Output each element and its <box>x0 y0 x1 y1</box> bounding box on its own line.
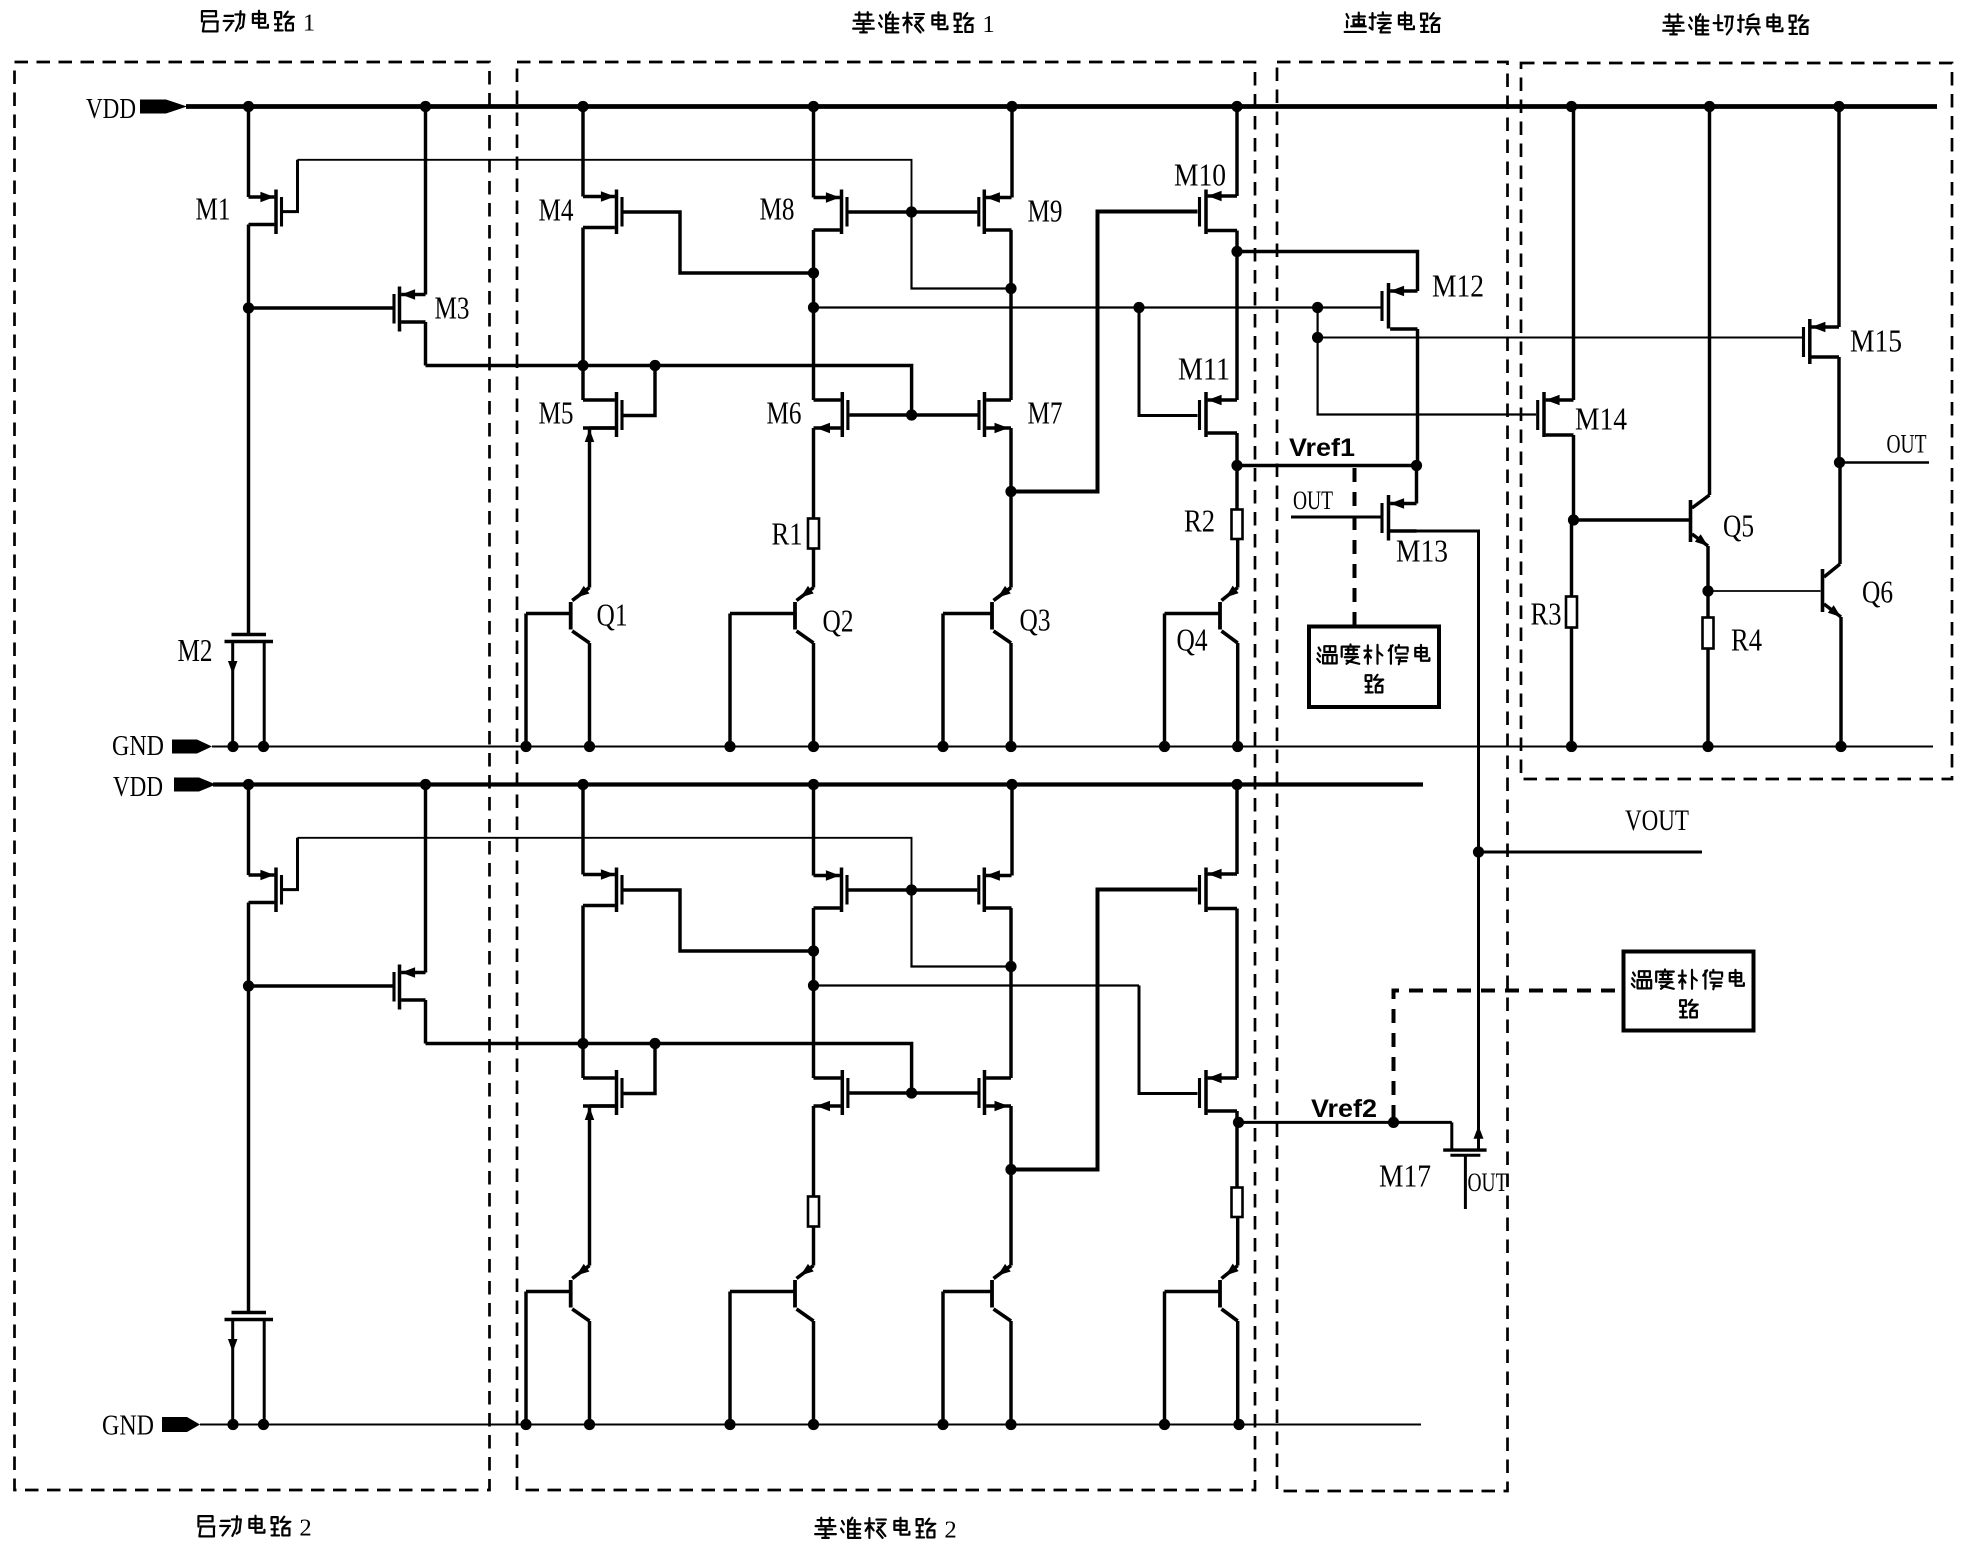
resistor R1' <box>808 1197 819 1227</box>
wire: VDD to M14 drain <box>1572 107 1575 401</box>
box: temperature compensation circuit 2 (wendu buchang dianlu) <box>1624 952 1754 1031</box>
node: M14 source / R3 / Q5 base junction <box>1568 514 1579 525</box>
label VOUT <box>1625 804 1689 837</box>
ground rail GND (bottom) <box>200 1424 1421 1426</box>
svg-text:1: 1 <box>982 11 994 38</box>
label M9 <box>1028 193 1063 229</box>
wire: R2 to Q4 emitter <box>1236 539 1239 588</box>
wire: M8 source down through M4-gate and M12-gate taps to M6 drain <box>812 908 815 1078</box>
title: jizhun he dianlu 2 (reference core circuit 2) <box>815 1516 957 1543</box>
transistor M10' (PMOS) <box>1200 868 1238 913</box>
label M4 <box>539 192 574 228</box>
dashed box: startup circuit 1/2 (qidong dianlu) <box>15 62 490 1490</box>
wire: VDD to M8 drain <box>812 107 815 198</box>
dashed box: reference core circuit 1/2 (jizhun he dianlu) <box>517 62 1255 1490</box>
transistor Q5 (NPN, switching circuit) <box>1691 107 1710 592</box>
svg-text:Q5: Q5 <box>1723 508 1754 544</box>
transistor M11' (PMOS cascode) <box>1200 1070 1238 1115</box>
wire: M5 source down to Q1 emitter <box>588 1106 591 1266</box>
label M11 <box>1178 351 1230 387</box>
node: M12 gate line tap <box>808 980 819 991</box>
transistor M8 (core PMOS) <box>814 190 848 235</box>
wire: thin gate line from M1 gate to M8/M9 gate column <box>298 160 912 212</box>
node: M5 gate junction on bias line <box>649 1038 660 1049</box>
node: M1 source / M3 gate junction <box>243 980 254 991</box>
title: jizhun he dianlu 1 (reference core circuit 1) <box>853 11 995 38</box>
resistor R3 <box>1566 597 1577 628</box>
svg-text:OUT: OUT <box>1468 1168 1508 1197</box>
wire: M13 gate line (OUT control) <box>1291 516 1381 519</box>
wire: long M12-gate line from M8 source column <box>814 306 1382 308</box>
wire: VDD to M8 drain <box>812 785 815 876</box>
wire: gate net drop to M9 source column <box>912 890 1012 967</box>
transistor M2' (startup 2) <box>225 1313 274 1425</box>
ground flag GND (upper) <box>112 730 212 762</box>
box: temperature compensation circuit 1 (wendu buchang dianlu) <box>1309 627 1439 708</box>
transistor Q4' (PNP) <box>1165 1264 1239 1425</box>
transistor M15 (PMOS, switching circuit) <box>1804 319 1840 364</box>
label M17 <box>1379 1158 1431 1194</box>
wire: M12 source down to Vref1 node <box>1416 329 1419 466</box>
wire: M8 source down through M4-gate and M12-gate taps to M6 drain <box>812 230 815 400</box>
svg-text:Vref1: Vref1 <box>1289 434 1355 462</box>
wire: M15 source down to OUT node <box>1837 357 1840 463</box>
transistor M9' (core 2 PMOS) <box>979 785 1012 913</box>
wire: M6 source to R1 <box>812 1106 815 1197</box>
svg-text:M4: M4 <box>539 192 574 228</box>
title: jizhun qiehuan dianlu (reference switching circuit) <box>1663 14 1808 34</box>
wire: M11 gate drop from M12 gate line <box>1139 308 1198 416</box>
label M10 <box>1174 157 1226 193</box>
svg-text:2: 2 <box>299 1514 311 1541</box>
wire: M7 source to Q3 node <box>1009 428 1012 492</box>
node: Vref2 left junction <box>1233 1117 1244 1128</box>
label M8 <box>760 191 795 227</box>
wire: VDD to M15 drain <box>1837 107 1840 328</box>
transistor Q1' (PNP) <box>526 1264 590 1425</box>
svg-text:Q6: Q6 <box>1862 574 1893 610</box>
wire: M11' source to Vref2 <box>1235 1111 1238 1122</box>
wire: M10 source down to M11 drain <box>1235 231 1238 401</box>
svg-text:M2: M2 <box>178 632 213 668</box>
svg-text:Vref2: Vref2 <box>1311 1095 1377 1123</box>
label M14 <box>1575 401 1627 437</box>
wire: node down to Q3 emitter <box>1009 1170 1012 1266</box>
node: OUT node (switching circuit) <box>1834 457 1845 468</box>
resistor R2' <box>1232 1188 1243 1218</box>
wire: M3 source down to bias line <box>424 322 427 366</box>
transistor M7 (core NMOS) <box>979 392 1011 437</box>
node: M7 source / Q3 collector / M10 gate junction <box>1005 486 1016 497</box>
transistor Q2 (PNP) <box>730 586 814 747</box>
node: M4 source junction on bias line <box>577 360 588 371</box>
label Q1 <box>597 597 628 633</box>
title: lianjie dianlu (connection circuit) <box>1345 12 1440 32</box>
transistor Q3' (PNP) <box>943 1264 1011 1425</box>
wire: M10 source down to M11 drain <box>1235 909 1238 1079</box>
svg-text:R3: R3 <box>1531 596 1562 632</box>
resistor R2 <box>1232 510 1243 540</box>
wire: jog from M10 source to M12 drain <box>1237 252 1418 292</box>
transistor M3' (startup 2 PMOS) <box>394 965 426 1010</box>
title: qidong dianlu 1 (startup circuit 1) <box>202 9 315 36</box>
wire: thin M15 gate line <box>1318 337 1802 339</box>
dashed box: connection circuit (lianjie dianlu) <box>1277 62 1508 1491</box>
node: M11 gate drop junction <box>1133 302 1144 313</box>
label OUT (M13 gate) <box>1293 486 1333 515</box>
node: Vref2 / temp-comp dashed link junction <box>1388 1117 1399 1128</box>
wire: VDD to M3 drain <box>424 107 427 295</box>
wire: VDD to M10 drain <box>1235 107 1238 197</box>
node: M4 source junction on bias line <box>577 1038 588 1049</box>
transistor M3 (startup PMOS) <box>394 287 426 332</box>
wire: drop to M14 gate <box>1318 338 1536 415</box>
wire: M14 gate line from M12-gate-line drop <box>1316 308 1318 338</box>
transistor M1 (startup PMOS) <box>249 190 282 235</box>
wire: M1 gate jog up to long gate line <box>283 838 298 890</box>
wire: thin Q6 base wire <box>1708 590 1821 592</box>
wire: VDD to M1 drain (column x=248.5) <box>247 107 250 198</box>
node: M15 gate line junction <box>1312 332 1323 343</box>
wire: node down to R3 <box>1570 520 1573 597</box>
transistor M6 (core NMOS) <box>814 392 848 437</box>
svg-text:Q4: Q4 <box>1177 622 1208 658</box>
label M1 <box>196 191 231 227</box>
wire: Q5 base wire <box>1574 518 1690 521</box>
resistor R4 <box>1703 618 1714 649</box>
svg-text:VOUT: VOUT <box>1625 804 1689 837</box>
transistor Q1 (PNP) <box>526 586 590 747</box>
node: M10 source / M12 drain jog junction <box>1231 246 1242 257</box>
svg-text:R1: R1 <box>772 516 803 552</box>
resistor R1 <box>808 519 819 549</box>
wire: thin gate line from M1 gate to M8/M9 gate column <box>298 838 912 890</box>
transistor M1' (startup 2 PMOS) <box>249 868 282 913</box>
transistor Q4 (PNP) <box>1165 586 1239 747</box>
wire: M1 source down to M3 gate node and M2 drain <box>247 225 250 634</box>
svg-text:Q3: Q3 <box>1020 602 1051 638</box>
svg-text:VDD: VDD <box>113 771 163 803</box>
label M6 <box>767 395 802 431</box>
transistor M2 (startup depletion NMOS) <box>225 635 274 747</box>
svg-text:M5: M5 <box>539 395 574 431</box>
transistor M14 (PMOS, switching circuit) <box>1538 392 1574 437</box>
wire: Vref2 line <box>1239 1121 1452 1124</box>
ground rail GND (upper) <box>212 746 1933 748</box>
svg-text:R4: R4 <box>1731 622 1762 658</box>
transistor M11 (PMOS cascode) <box>1200 392 1238 437</box>
node: junction on M9 source column <box>1005 961 1016 972</box>
label Q2 <box>823 603 854 639</box>
wire: M6-M7 gate wire <box>850 413 978 416</box>
label M12 <box>1432 268 1484 304</box>
dashed link: Vref2 to temperature compensation circuit 2 <box>1394 991 1624 1120</box>
label M7 <box>1028 395 1063 431</box>
node: M12 gate line tap <box>808 302 819 313</box>
node: M4 gate tap <box>808 267 819 278</box>
wire: R3 to GND <box>1570 628 1573 747</box>
wire: bias line from M3 source to M6/M7 gate drop <box>426 1044 912 1094</box>
transistor M6' (core 2 NMOS) <box>814 1070 848 1115</box>
transistor Q3 (PNP) <box>943 586 1011 747</box>
dashed box: reference switching circuit (jizhun qiehuan dianlu) <box>1521 63 1952 779</box>
wire: M8-M9 gate wire <box>849 210 978 213</box>
wire: M7 source to Q3 node <box>1009 1106 1012 1170</box>
label R2 <box>1184 503 1215 539</box>
label M5 <box>539 395 574 431</box>
wire: R1 to Q2 emitter <box>812 549 815 588</box>
label R3 <box>1531 596 1562 632</box>
label Q6 <box>1862 574 1893 610</box>
wire: R2' from Vref2 node <box>1235 1122 1238 1187</box>
wire: M5 gate jog up to bias line <box>624 366 656 416</box>
power flag VDD (top) <box>86 93 187 125</box>
node: M4 gate tap <box>808 945 819 956</box>
wire: R2 from Vref1 node <box>1235 466 1238 510</box>
title: qidong dianlu 2 (startup circuit 2) <box>198 1514 311 1541</box>
power rail VDD (lower) <box>213 782 1423 786</box>
label Vref2 <box>1311 1095 1377 1123</box>
wire: M4 gate jog to M8 drain column <box>624 212 814 273</box>
transistor M17 (horizontal NMOS switch) <box>1443 1122 1486 1209</box>
wire: bottom M12-gate-line (ends at M11' gate drop) <box>814 984 1140 986</box>
wire: VOUT node down to M17 drain with up arrow <box>1474 852 1484 1149</box>
label Vref1 <box>1289 434 1355 462</box>
wire: M6-M7 gate wire <box>850 1091 978 1094</box>
svg-text:R2: R2 <box>1184 503 1215 539</box>
label R1 <box>772 516 803 552</box>
transistor M9 (core PMOS) <box>979 107 1012 235</box>
label Q5 <box>1723 508 1754 544</box>
wire: VDD to M1' drain <box>247 785 250 876</box>
ground flag GND (bottom) <box>102 1410 200 1442</box>
wire: M11 gate drop from M12 gate line <box>1139 986 1198 1094</box>
transistor M5 (core NMOS) <box>583 366 622 443</box>
svg-text:2: 2 <box>944 1516 956 1543</box>
label OUT (switching circuit output) <box>1887 430 1927 459</box>
wire: Vref1 down to M13 drain <box>1415 466 1418 504</box>
wire: M13 source over and down to VOUT node <box>1390 531 1479 852</box>
svg-text:1: 1 <box>303 9 315 36</box>
label M2 <box>178 632 213 668</box>
power rail VDD (top) <box>186 104 1937 109</box>
svg-text:VDD: VDD <box>86 93 136 125</box>
node: gate-line junction at M8/M9 gates <box>906 884 917 895</box>
wire: M4 gate jog to M8 drain column <box>624 890 814 951</box>
svg-text:M14: M14 <box>1575 401 1627 437</box>
wire: VDD to M3 drain <box>424 785 427 973</box>
transistor M13 (PMOS switch, connection circuit) <box>1382 495 1417 541</box>
wire: M9 source column down to M7 drain <box>1009 230 1012 400</box>
node: M5 gate junction on bias line <box>649 360 660 371</box>
wire: M8-M9 gate wire <box>849 888 978 891</box>
svg-text:OUT: OUT <box>1887 430 1927 459</box>
node: junction on M9 source column <box>1005 283 1016 294</box>
wire: R2' to Q4' emitter <box>1236 1217 1239 1266</box>
wire: M10 gate path (thick) <box>1011 212 1198 492</box>
wire: VDD to M10 drain <box>1235 785 1238 875</box>
wire: M9 source column down to M7 drain <box>1009 908 1012 1078</box>
svg-text:M15: M15 <box>1850 323 1902 359</box>
label M13 <box>1396 533 1448 569</box>
junction dots on top VDD rail <box>243 101 1845 112</box>
wire: gate net drop to M9 source column <box>912 212 1012 289</box>
svg-text:M13: M13 <box>1396 533 1448 569</box>
wire: M11 source down to Vref1 <box>1235 433 1238 466</box>
label R4 <box>1731 622 1762 658</box>
junction dots on lower VDD rail <box>243 779 1243 790</box>
svg-text:OUT: OUT <box>1293 486 1333 515</box>
junction dots on bottom GND rail <box>227 1419 1244 1430</box>
svg-text:M1: M1 <box>196 191 231 227</box>
wire: Vref1 line <box>1237 464 1417 467</box>
wire: VOUT line <box>1479 851 1703 854</box>
svg-text:Q1: Q1 <box>597 597 628 633</box>
label OUT (M17 gate) <box>1468 1168 1508 1197</box>
power flag VDD (lower) <box>113 771 216 803</box>
wire: node down to Q3 emitter <box>1009 492 1012 588</box>
wire: M5 gate jog up to bias line <box>624 1044 656 1094</box>
junction dots on upper GND rail <box>227 741 1846 752</box>
transistor M5' (core 2 NMOS) <box>583 1044 622 1121</box>
node: bias-line junction at M6/M7 gates <box>906 1087 917 1098</box>
node: gate-line junction at M8/M9 gates <box>906 206 917 217</box>
dashed link: Vref1 to temperature compensation circuit 1 <box>1353 468 1357 627</box>
wire: M1 gate jog up to long gate line <box>283 160 298 212</box>
node: Vref1 right junction (M12 source / M13 drain) <box>1411 460 1422 471</box>
wire: node to R4 <box>1706 591 1709 618</box>
svg-text:M10: M10 <box>1174 157 1226 193</box>
wire: M1 source down to M3 gate node and M2 drain <box>247 903 250 1312</box>
wire: M10 gate path (thick) <box>1011 890 1198 1170</box>
label Q4 <box>1177 622 1208 658</box>
transistor M4 (core PMOS) <box>583 107 622 235</box>
svg-text:GND: GND <box>102 1410 154 1442</box>
svg-text:M3: M3 <box>435 290 470 326</box>
svg-text:M12: M12 <box>1432 268 1484 304</box>
wire: M3 source down to bias line <box>424 1000 427 1044</box>
svg-text:M9: M9 <box>1028 193 1063 229</box>
node: M7 source / Q3 collector / M10 gate junction <box>1005 1164 1016 1175</box>
wire: M3 gate line <box>249 984 393 987</box>
transistor M12 (PMOS, connection circuit) <box>1382 283 1418 329</box>
transistor M8' (core 2 PMOS) <box>814 868 848 913</box>
svg-text:M8: M8 <box>760 191 795 227</box>
node: M1 source / M3 gate junction <box>243 302 254 313</box>
transistor M10 (PMOS) <box>1200 190 1238 235</box>
transistor Q6 (NPN, switching circuit) <box>1823 564 1842 747</box>
wire: M3 gate line <box>249 306 393 309</box>
label M15 <box>1850 323 1902 359</box>
node: Vref1 left junction <box>1231 460 1242 471</box>
wire: R1 to Q2 emitter <box>812 1227 815 1266</box>
svg-text:M7: M7 <box>1028 395 1063 431</box>
label M3 <box>435 290 470 326</box>
transistor Q2' (PNP) <box>730 1264 814 1425</box>
wire: M4 source to bias line <box>581 906 584 1044</box>
node: Q5 emitter / R4 / Q6 base junction <box>1702 585 1713 596</box>
label Q3 <box>1020 602 1051 638</box>
svg-text:M6: M6 <box>767 395 802 431</box>
wire: M5 source down to Q1 emitter <box>588 428 591 588</box>
svg-text:M17: M17 <box>1379 1158 1431 1194</box>
transistor M7' (core 2 NMOS) <box>979 1070 1011 1115</box>
wire: OUT stub <box>1840 461 1930 464</box>
wire: M14 source to R3/Q5 node <box>1572 435 1575 520</box>
wire: OUT node down to Q6 collector <box>1838 463 1841 565</box>
wire: bias line from M3 source to M6/M7 gate drop <box>426 366 912 416</box>
wire: R4 to GND <box>1706 649 1709 747</box>
node: M14/M15 gate drop junction <box>1312 302 1323 313</box>
node: VOUT junction <box>1473 846 1484 857</box>
svg-text:Q2: Q2 <box>823 603 854 639</box>
wire: M4 source to bias line <box>581 228 584 366</box>
wire: M6 source to R1 <box>812 428 815 519</box>
node: bias-line junction at M6/M7 gates <box>906 409 917 420</box>
svg-text:GND: GND <box>112 730 164 762</box>
svg-text:M11: M11 <box>1178 351 1230 387</box>
transistor M4' (core 2 PMOS) <box>583 785 622 913</box>
